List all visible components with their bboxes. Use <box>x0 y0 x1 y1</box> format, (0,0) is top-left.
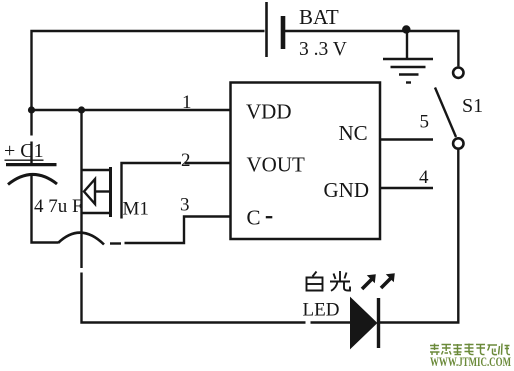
node junction VDD rail gate branch <box>78 106 85 113</box>
svg-text:WWW.JTMIC.COM: WWW.JTMIC.COM <box>430 355 511 369</box>
svg-text:M1: M1 <box>123 199 149 220</box>
battery BAT <box>267 2 284 57</box>
wire capacitor bottom lead to bottom rail <box>32 174 59 243</box>
transistor M1 <box>82 110 351 323</box>
LED emission arrow 2 <box>381 273 395 288</box>
svg-text:4 7u F: 4 7u F <box>34 196 83 217</box>
label white-light hanzi bai <box>307 272 323 291</box>
svg-text:+ C1: + C1 <box>4 140 44 162</box>
svg-text:VOUT: VOUT <box>247 153 305 177</box>
label white-light hanzi guang <box>330 271 350 291</box>
svg-text:3 .3 V: 3 .3 V <box>299 39 347 60</box>
wire pin 4 (GND) <box>381 187 434 189</box>
wire right rail (switch to bottom-right corner) <box>380 149 458 323</box>
svg-text:S1: S1 <box>462 95 483 117</box>
svg-text:NC: NC <box>339 121 368 145</box>
switch S1 <box>435 68 463 149</box>
svg-text:3: 3 <box>180 195 190 216</box>
svg-text:4: 4 <box>419 167 429 188</box>
wire pin 2 (VOUT) to gate <box>122 163 231 219</box>
wire crossover hop <box>58 233 104 245</box>
svg-text:GND: GND <box>324 178 370 202</box>
svg-text:BAT: BAT <box>299 5 339 29</box>
svg-text:1: 1 <box>182 92 192 113</box>
svg-text:2: 2 <box>181 150 191 171</box>
ground <box>383 31 433 83</box>
LED D1 <box>351 298 379 348</box>
IC U1 body <box>231 83 381 240</box>
svg-text:5: 5 <box>420 112 430 133</box>
LED emission arrow 1 <box>362 274 376 289</box>
watermark hanzi row <box>430 344 510 356</box>
wire top rail right (battery to switch) <box>285 31 458 66</box>
capacitor C1 <box>5 160 58 184</box>
wire top rail left (battery to top-left corner) <box>32 31 265 163</box>
wire pin 5 (NC) <box>381 138 434 140</box>
wire pin 1 (VDD) <box>32 109 231 111</box>
svg-text:C: C <box>247 206 261 230</box>
svg-text:VDD: VDD <box>246 100 292 124</box>
wire dash segment <box>110 242 121 244</box>
node junction ground tap <box>402 25 410 33</box>
svg-text:LED: LED <box>303 300 340 321</box>
wire bottom to pin 3 riser <box>125 217 231 244</box>
node junction VDD rail left <box>28 106 35 113</box>
